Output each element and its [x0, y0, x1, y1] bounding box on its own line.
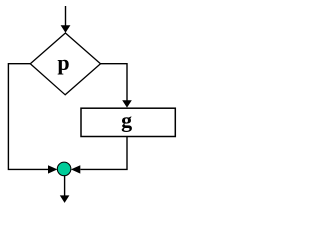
arrowhead into decision diamond top	[61, 25, 71, 33]
svg-text:p: p	[57, 50, 69, 75]
arrowhead into junction from left	[48, 165, 57, 173]
arrowhead outgoing bottom	[60, 195, 70, 203]
wire: top incoming arrow shaft	[65, 6, 67, 27]
wire: from g down and left to junction	[80, 137, 127, 170]
arrowhead into junction from right	[71, 165, 80, 173]
wire: true branch right and down to g	[101, 64, 128, 101]
process box g	[81, 108, 175, 136]
junction node (teal circle)	[57, 162, 71, 176]
wire: outgoing shaft below junction	[64, 176, 66, 196]
decision diamond p	[30, 33, 100, 95]
arrowhead into process box g	[122, 100, 132, 107]
svg-text:g: g	[121, 108, 132, 133]
wire: false branch left and down	[8, 64, 48, 170]
